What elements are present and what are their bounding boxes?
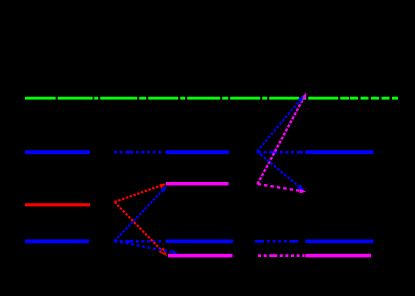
blue level y=241.3, middle solid segment [166, 239, 234, 243]
blue level y=241.3, left dotted connector [114, 240, 161, 243]
red dashed coupling arrow, left vertex to lower magenta level [115, 202, 161, 249]
green dashed level, short-dash right part [350, 97, 398, 100]
blue arrowhead at green level [297, 96, 303, 103]
red dashed coupling arrow, left vertex to upper magenta level [115, 186, 162, 203]
blue level y=241.3, right dotted connector [255, 240, 301, 243]
magenta level y=255.3, right dotted connector [258, 254, 305, 257]
magenta level y=255.3, right solid segment [305, 254, 371, 258]
blue dashed coupling arrow, left lower vertex shallow to lower magenta level [115, 241, 174, 252]
magenta level y=255.3, middle solid segment [168, 254, 233, 258]
blue arrowhead at upper magenta level [161, 186, 167, 192]
blue arrowhead at lower magenta level left end [172, 250, 178, 254]
magenta dashed coupling arrow, lower vertex shallow right [258, 184, 301, 191]
blue level y=241.3, right solid segment [305, 239, 373, 243]
blue level y=241.3, left solid segment [25, 239, 89, 243]
magenta level y=183.7, middle solid segment [166, 182, 229, 185]
blue level y=152, left dotted connector [114, 151, 163, 154]
magenta arrowhead pointing right at end of shallow arm [299, 188, 306, 193]
magenta dashed coupling arrow, lower vertex up to green level [258, 98, 304, 184]
magenta arrowhead at green level apex [301, 93, 307, 100]
blue dashed coupling arrow, right vertex up to green level [257, 101, 300, 152]
blue dashed coupling arrow, right vertex down to lower-right [257, 152, 299, 186]
red level y=204.5, left solid segment [25, 203, 90, 206]
blue level y=152, right dotted connector [258, 151, 303, 154]
green dashed level (upper virtual level), long-dash part [25, 97, 349, 100]
blue level y=152, middle solid segment [166, 150, 230, 154]
blue dashed coupling arrow, left lower vertex to upper magenta level [115, 191, 163, 242]
blue level y=152, right solid segment [305, 150, 373, 154]
blue level y=152, left solid segment [25, 150, 90, 154]
red open arrowhead at lower magenta level [160, 249, 166, 255]
red arrowhead at upper magenta level [160, 184, 167, 189]
blue arrowhead pointing down-right near magenta dashed arm [297, 184, 304, 190]
